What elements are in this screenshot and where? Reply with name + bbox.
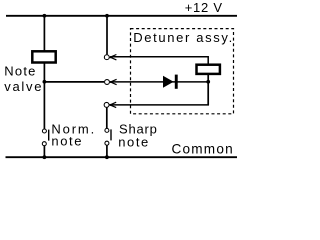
wire: detuner coil bottom down to return line bbox=[207, 75, 209, 106]
sharp note pushbutton bar bbox=[110, 129, 112, 140]
norm note upper contact bbox=[42, 129, 46, 133]
sharp note lower contact bbox=[105, 141, 109, 145]
wire: junction to switch 2 contact bbox=[44, 81, 104, 83]
wire: switch 2 through diode to junction bbox=[110, 81, 208, 83]
wire: +12V rail down to switch 1 contact bbox=[106, 16, 108, 55]
junction on common rail at norm-note bbox=[43, 155, 47, 159]
switch 2 wiper arrow bbox=[110, 79, 116, 84]
switch 3 fixed contact bbox=[104, 102, 109, 107]
wire: switch 3 contact down to sharp-note contact bbox=[106, 107, 108, 128]
switch 2 fixed contact bbox=[105, 80, 110, 85]
wire: switch 1 to detuner coil top bbox=[110, 57, 208, 64]
svg-text:Note: Note bbox=[4, 63, 36, 78]
diode (anode left, cathode right) bbox=[163, 76, 174, 88]
junction on +12V rail at note valve branch bbox=[43, 14, 47, 18]
detuner assembly dashed enclosure bbox=[131, 29, 234, 114]
detuner relay coil bbox=[197, 65, 220, 74]
svg-text:note: note bbox=[51, 133, 83, 148]
junction: diode output / coil bottom bbox=[206, 80, 210, 84]
junction on +12V rail at switch 1 branch bbox=[105, 14, 109, 18]
switch 3 wiper arrow bbox=[110, 102, 116, 107]
svg-text:note: note bbox=[118, 134, 150, 149]
wire: note valve coil bottom down to norm-note contact bbox=[43, 63, 45, 129]
wire: norm-note lower contact to common rail bbox=[43, 146, 45, 157]
junction: branch from note valve wire to switch 2 bbox=[43, 80, 47, 84]
switch 1 wiper arrow bbox=[110, 55, 116, 60]
wire: +12V rail down to note valve coil bbox=[43, 16, 45, 51]
norm note pushbutton bar bbox=[48, 130, 50, 141]
wire: switch 3 return line into detuner box bbox=[110, 104, 209, 106]
wire: sharp-note lower contact to common rail bbox=[106, 145, 108, 157]
+12V supply rail wire bbox=[6, 15, 237, 17]
svg-text:Common: Common bbox=[172, 142, 234, 157]
switch 1 fixed contact bbox=[104, 55, 109, 60]
note valve coil bbox=[32, 51, 55, 62]
sharp note upper contact bbox=[105, 128, 109, 132]
junction on common rail at sharp-note bbox=[105, 155, 109, 159]
svg-text:+12 V: +12 V bbox=[185, 0, 223, 15]
norm note lower contact bbox=[42, 142, 46, 146]
svg-text:Detuner assy.: Detuner assy. bbox=[133, 30, 234, 45]
common rail wire bbox=[6, 156, 238, 158]
svg-text:valve: valve bbox=[4, 79, 43, 94]
